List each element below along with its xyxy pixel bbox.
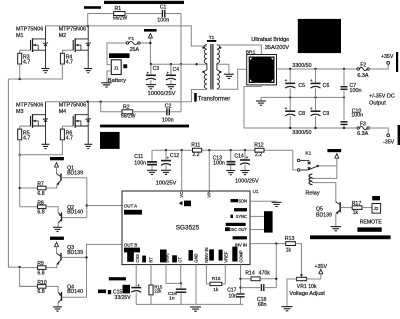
- resistor R16 1k: [210, 276, 222, 292]
- svg-text:4.7: 4.7: [66, 60, 73, 66]
- bar censored above transformer core: [207, 40, 216, 42]
- junction R9 tap: [18, 266, 20, 268]
- capacitor C3 10000/25V: [146, 64, 159, 84]
- svg-text:R17: R17: [352, 201, 362, 207]
- pin SDN: [231, 199, 248, 204]
- censored block right of J1: [123, 64, 127, 68]
- connector J1: [111, 60, 121, 75]
- transistor Q3 BD139 with resistor R9: [20, 237, 87, 277]
- svg-text:BD140: BD140: [67, 289, 83, 295]
- junction M2 drain / R1C1 snubber: [87, 25, 89, 27]
- capacitor C2 100n: [162, 104, 174, 124]
- svg-text:MTP75N06: MTP75N06: [59, 102, 86, 108]
- pin CT: [172, 255, 182, 262]
- junction snubber B at drain rail: [100, 101, 102, 103]
- wire driver bus A: [86, 178, 88, 218]
- wire +12V rail to transformer center tap: [150, 63, 207, 65]
- pin VC top: [179, 192, 184, 198]
- svg-text:56/2W: 56/2W: [113, 16, 128, 22]
- svg-text:C9: C9: [323, 111, 330, 117]
- svg-text:10000/25V: 10000/25V: [148, 91, 176, 97]
- svg-text:J1: J1: [114, 65, 119, 70]
- label +/-35V DC Output: [369, 94, 395, 107]
- svg-text:25A: 25A: [130, 47, 140, 53]
- svg-text:K1: K1: [305, 151, 311, 157]
- relay coil K1: [309, 174, 314, 184]
- svg-text:33/25V: 33/25V: [115, 295, 132, 301]
- ground C14: [241, 171, 250, 175]
- wire M4 drain stub: [87, 101, 89, 103]
- phase dot primary top: [202, 47, 204, 49]
- wire R2 to C2: [133, 111, 167, 113]
- wire rail to relay contact: [293, 150, 297, 170]
- svg-text:R1: R1: [115, 6, 122, 12]
- svg-text:6.8: 6.8: [37, 191, 44, 197]
- censored block left of IC: [100, 132, 120, 149]
- svg-text:R16: R16: [212, 276, 221, 281]
- censored marks left of C15: [98, 290, 111, 295]
- censored bar top short: [84, 6, 101, 9]
- wire drain rail M3/M4 to transformer primary bottom: [46, 90, 207, 102]
- svg-text:Transformer: Transformer: [198, 96, 230, 102]
- wire R9/R10 jog: [20, 267, 38, 286]
- svg-text:Voltage Adjust: Voltage Adjust: [289, 291, 325, 297]
- svg-text:R10: R10: [37, 280, 47, 286]
- wire secondary top to bridge: [217, 45, 262, 55]
- relay contact K1: [297, 159, 319, 171]
- transformer primary winding: [204, 45, 207, 89]
- ground VR1: [282, 307, 293, 311]
- svg-text:C11: C11: [134, 154, 143, 160]
- svg-text:1k: 1k: [286, 247, 292, 253]
- wire bottom rail: [136, 303, 243, 305]
- svg-text:100n: 100n: [157, 18, 169, 24]
- censored bar above J1: [109, 53, 130, 58]
- svg-text:MTP75N06: MTP75N06: [16, 27, 43, 33]
- pin OUT A: [124, 204, 137, 209]
- node +12V relay arrow (label censored): [327, 149, 341, 166]
- junction C9 bottom: [314, 127, 316, 129]
- svg-text:+: +: [146, 71, 149, 76]
- resistor R13 1k: [285, 236, 296, 253]
- ground C4: [166, 85, 176, 89]
- ground mid rail: [256, 97, 266, 105]
- wire RT pin down: [150, 265, 152, 285]
- wire drain rail M1/M2 to transformer primary top: [46, 26, 207, 46]
- wire F1 to +12V node: [140, 42, 150, 44]
- wire OSC OUT stub: [250, 229, 264, 231]
- wire J1 pin2 to ground: [107, 71, 111, 82]
- svg-text:BD139: BD139: [316, 213, 332, 219]
- junction feedback node: [275, 242, 277, 244]
- svg-text:1000/25V: 1000/25V: [235, 179, 259, 185]
- capacitor C12 100/25V: [161, 150, 179, 170]
- junction C5 top: [289, 68, 291, 70]
- svg-text:3300/50: 3300/50: [292, 63, 311, 69]
- svg-text:VC: VC: [179, 192, 184, 198]
- svg-text:CT: CT: [178, 257, 183, 263]
- node +35V arrow: [315, 264, 328, 274]
- label Relay: [305, 190, 320, 196]
- label 35A/200V: [265, 45, 289, 51]
- capacitor C16 1n: [168, 283, 186, 304]
- svg-text:4.7: 4.7: [23, 135, 30, 141]
- resistor R2: [121, 105, 136, 120]
- junction center-tap column at +12V rail: [180, 63, 182, 65]
- ground C13: [226, 171, 235, 175]
- resistor R17 1k: [352, 201, 362, 216]
- ground secondary center tap: [224, 74, 234, 78]
- svg-text:BD139: BD139: [67, 250, 83, 256]
- wire C1 to center-tap column: [165, 13, 181, 15]
- label 100/25V: [156, 180, 177, 186]
- fuse F3 6.3A: [357, 121, 369, 136]
- wire +35V rail: [277, 68, 358, 70]
- svg-text:F1: F1: [128, 36, 134, 42]
- svg-text:NINV IN: NINV IN: [204, 248, 209, 263]
- svg-text:2.2: 2.2: [255, 152, 262, 158]
- censored mark right of C15 label: [123, 285, 131, 294]
- svg-text:100n: 100n: [213, 161, 225, 167]
- censored long bar bottom right: [310, 235, 391, 239]
- censored block above J2: [372, 196, 380, 200]
- junction C13 rail: [230, 149, 232, 151]
- label 10000/25V: [148, 91, 176, 97]
- svg-text:1n: 1n: [169, 295, 175, 301]
- svg-text:CSS: CSS: [135, 254, 140, 263]
- svg-text:C12: C12: [170, 153, 180, 159]
- svg-text:+: +: [310, 78, 313, 83]
- svg-text:BR1: BR1: [246, 50, 256, 56]
- wire CT pin down: [180, 265, 182, 284]
- capacitor C13 100n: [213, 150, 236, 170]
- capacitor C5 3300/50: [285, 69, 306, 97]
- label K1: [305, 151, 311, 157]
- wire DISC pin down: [166, 265, 181, 284]
- transistor M1 (MTP75N06) with gate resistor R3: [16, 26, 50, 73]
- wire R17 to J2: [362, 207, 372, 209]
- svg-text:M2: M2: [59, 33, 66, 39]
- wire snubber A left leg: [88, 14, 114, 26]
- svg-text:6.3A: 6.3A: [357, 73, 368, 79]
- pin GND: [189, 250, 199, 263]
- svg-text:C14: C14: [234, 154, 244, 160]
- label 1000/25V: [235, 179, 259, 185]
- svg-text:Relay: Relay: [305, 190, 320, 196]
- svg-text:100n: 100n: [134, 161, 146, 167]
- capacitor C17 10n: [227, 288, 244, 305]
- resistor R1: [113, 6, 128, 22]
- svg-text:GND: GND: [194, 253, 199, 262]
- wire secondary center tap to ground: [217, 64, 229, 74]
- svg-text:M3: M3: [16, 109, 24, 115]
- svg-text:C6: C6: [323, 83, 330, 89]
- wire GND pin down: [195, 265, 197, 305]
- svg-text:R11: R11: [191, 143, 200, 149]
- svg-text:2.2: 2.2: [193, 152, 200, 158]
- censored bar above C15: [109, 277, 126, 280]
- junction C3: [150, 63, 152, 65]
- svg-text:68n: 68n: [258, 302, 267, 308]
- wire R15 to rail: [150, 295, 152, 305]
- label Transformer: [194, 93, 230, 102]
- svg-text:J2: J2: [374, 206, 379, 211]
- svg-text:+35V: +35V: [381, 54, 394, 60]
- capacitor C14 1000/25V: [234, 150, 250, 170]
- capacitor C15 33/25V: [113, 283, 141, 304]
- svg-text:6.8: 6.8: [37, 210, 44, 216]
- capacitor C7 100n: [341, 69, 362, 97]
- svg-text:C3: C3: [153, 66, 160, 72]
- label 3300/50 top: [292, 63, 311, 69]
- label REMOTE: [360, 220, 382, 226]
- junction F1 at +12V column: [149, 42, 151, 44]
- svg-text:R13: R13: [285, 236, 295, 242]
- junction OUT B bus Q3: [85, 256, 87, 258]
- junction R5 bottom row: [19, 154, 21, 156]
- label Battery: [108, 78, 126, 84]
- svg-text:OSC OUT: OSC OUT: [228, 227, 247, 232]
- junction R3 bottom: [19, 78, 21, 80]
- wire COMP pin down: [240, 265, 242, 294]
- svg-text:+: +: [310, 106, 313, 111]
- wire gate drive row M1/M2: [8, 64, 62, 79]
- wire VC tap down: [181, 150, 183, 191]
- wire center-tap column x181: [180, 14, 182, 112]
- censored bar under REMOTE: [357, 227, 381, 231]
- svg-text:VREF: VREF: [223, 251, 228, 262]
- censored bar top long: [104, 1, 184, 4]
- junction C12 rail: [165, 149, 167, 151]
- junction COMP R14: [239, 278, 241, 280]
- svg-text:Battery: Battery: [108, 78, 126, 84]
- transistor Q5 BD139: [316, 202, 340, 226]
- capacitor C11 100n: [134, 150, 157, 170]
- wire mid rail: [261, 96, 344, 98]
- svg-text:F3: F3: [360, 121, 366, 127]
- capacitor C8 3300/50: [285, 97, 306, 128]
- wire contact common to +12V node: [318, 165, 337, 167]
- wire R5 column down to R7/R8: [19, 140, 21, 207]
- junction C4: [170, 63, 172, 65]
- pin OSC OUT: [225, 223, 247, 232]
- svg-text:R12: R12: [254, 143, 264, 149]
- svg-text:SDN: SDN: [238, 199, 247, 204]
- pin VIN top: [207, 191, 212, 198]
- junction C8 bottom: [289, 127, 291, 129]
- svg-text:C2: C2: [165, 104, 172, 110]
- svg-text:M4: M4: [59, 109, 66, 115]
- transformer T1 label: [209, 35, 215, 41]
- junction CT DISC C16: [180, 282, 182, 284]
- svg-text:C5: C5: [298, 83, 305, 89]
- pin DISC: [160, 250, 169, 263]
- label BR1: [246, 50, 256, 56]
- ground Q5 emitter: [331, 227, 342, 231]
- transformer core: [211, 44, 213, 90]
- phase dot secondary bottom: [219, 71, 221, 73]
- svg-text:4.7: 4.7: [23, 60, 30, 66]
- pin SYNC: [231, 208, 248, 219]
- capacitor C10 100n: [341, 97, 364, 128]
- svg-text:SG3525: SG3525: [176, 224, 200, 231]
- svg-text:22k: 22k: [154, 289, 162, 294]
- transformer secondary winding: [217, 45, 220, 89]
- wire feedback node down: [275, 244, 277, 288]
- svg-text:35A/200V: 35A/200V: [265, 45, 289, 51]
- svg-text:+35V: +35V: [315, 264, 328, 270]
- fuse F2 6.3A: [357, 62, 369, 78]
- op-amp U1 SG3525 body: [122, 189, 259, 264]
- ground battery negative: [101, 83, 112, 87]
- pin INV IN: [233, 236, 247, 247]
- pin OUT B: [124, 243, 137, 248]
- censored bar right edge top: [396, 52, 398, 72]
- svg-text:R8: R8: [37, 200, 44, 206]
- wire VCC rail: [152, 149, 293, 151]
- pin NINV IN: [204, 248, 214, 263]
- transistor M4 (MTP75N06) with gate resistor R6: [59, 102, 92, 149]
- svg-text:REMOTE: REMOTE: [360, 220, 382, 226]
- censored pin number OUT A: [124, 210, 142, 215]
- junction C10 bottom: [343, 127, 345, 129]
- wire BR1 negative out: [244, 85, 357, 128]
- wire VIN tap down: [208, 150, 210, 191]
- potentiometer VR1 10k: [289, 274, 325, 296]
- svg-text:+: +: [246, 155, 249, 160]
- wire VR1 right to +35V: [307, 274, 321, 279]
- capacitor C4 10000/25V: [166, 64, 179, 84]
- pin RT: [142, 256, 153, 263]
- junction VIN tap: [208, 149, 210, 151]
- terminal -35V: [383, 134, 395, 146]
- wire R13 to VR1 wiper: [295, 244, 301, 275]
- junction center tap: [195, 63, 197, 65]
- junction R7 tap: [19, 187, 21, 189]
- svg-text:+: +: [285, 106, 288, 111]
- svg-text:BD139: BD139: [67, 170, 83, 176]
- svg-text:C1: C1: [160, 4, 167, 10]
- junction C7 top: [343, 68, 345, 70]
- censored pin number OUT B: [124, 248, 140, 253]
- phase dot secondary top: [219, 47, 221, 49]
- junction C14 rail: [244, 149, 246, 151]
- wire OUT A to IC: [87, 205, 122, 207]
- svg-text:100n: 100n: [350, 88, 362, 94]
- svg-text:56/2W: 56/2W: [121, 114, 136, 120]
- svg-text:+: +: [166, 71, 169, 76]
- wire SDN to ground: [250, 200, 277, 202]
- wire R1 to C1: [125, 13, 162, 15]
- svg-text:10n: 10n: [229, 294, 238, 300]
- svg-text:100/25V: 100/25V: [156, 180, 177, 186]
- svg-text:3300/50: 3300/50: [292, 130, 311, 136]
- censored thick line: [100, 125, 189, 128]
- censored block right of IC: [264, 211, 273, 232]
- junction C5 bottom: [289, 96, 291, 98]
- ground SDN: [272, 202, 282, 206]
- node +12V supply arrow (label censored): [144, 29, 157, 64]
- junction M4 drain: [87, 101, 89, 103]
- resistor R14 470k: [241, 271, 277, 281]
- svg-text:C8: C8: [298, 111, 305, 117]
- label Ultrafast Bridge: [251, 37, 289, 43]
- svg-text:100n: 100n: [162, 118, 174, 124]
- svg-text:Output: Output: [369, 100, 386, 106]
- junction OUT A: [86, 204, 88, 206]
- wire VR1 left to ground: [287, 279, 297, 306]
- wire SYNC stub: [250, 215, 264, 217]
- transistor Q1 BD139 with resistor R7: [20, 157, 87, 197]
- resistor R12 2.2: [254, 143, 264, 158]
- svg-text:VIN: VIN: [207, 191, 212, 198]
- svg-text:+/-35V DC: +/-35V DC: [369, 94, 395, 100]
- svg-text:100n: 100n: [351, 113, 363, 119]
- svg-text:6.8: 6.8: [37, 289, 44, 295]
- bridge rectifier BR1 (ultrafast bridge): [247, 55, 277, 85]
- junction C6 top: [314, 68, 316, 70]
- junction C7 bottom: [343, 96, 345, 98]
- ground C12: [161, 170, 171, 174]
- resistor R15 22k: [149, 285, 163, 295]
- connector J2: [372, 204, 381, 214]
- svg-text:R7: R7: [37, 182, 44, 188]
- svg-text:R2: R2: [123, 105, 130, 111]
- wire coil to Q5 collector: [313, 183, 335, 202]
- transistor Q4 BD140 with resistor R10: [20, 280, 87, 311]
- censored pin number VC: [179, 201, 191, 207]
- wire R3 bottom: [19, 64, 21, 79]
- svg-text:+: +: [137, 283, 140, 288]
- wire gate drive row M3/M4: [20, 140, 63, 155]
- svg-text:R9: R9: [37, 261, 44, 267]
- svg-text:U1: U1: [253, 189, 259, 194]
- wire VREF pin to R16: [222, 265, 226, 284]
- svg-text:10k: 10k: [308, 284, 317, 290]
- pin VREF: [219, 250, 229, 263]
- resistor R11 2.2: [191, 143, 201, 158]
- ground IC: [190, 307, 201, 311]
- svg-text:OUT A: OUT A: [124, 204, 137, 209]
- capacitor C9 3300/50: [310, 97, 329, 128]
- svg-text:COMP: COMP: [238, 250, 243, 263]
- svg-text:6.3A: 6.3A: [357, 131, 368, 137]
- svg-text:-35V: -35V: [383, 140, 395, 146]
- svg-text:VR1: VR1: [297, 284, 307, 290]
- svg-text:4.7: 4.7: [66, 135, 73, 141]
- junction VC tap: [181, 149, 183, 151]
- wire driver bus B: [87, 244, 123, 297]
- pin COMP: [232, 247, 243, 263]
- censored bar right edge bottom: [398, 125, 400, 145]
- svg-text:INV IN: INV IN: [235, 242, 247, 247]
- transistor M2 (MTP75N06) with gate resistor R4: [59, 26, 92, 73]
- ground C3: [146, 85, 156, 89]
- wire snubber B left leg: [101, 102, 122, 112]
- svg-text:OUT B: OUT B: [124, 243, 137, 248]
- svg-text:M1: M1: [16, 33, 24, 39]
- wire F3 to -35V terminal: [369, 128, 388, 134]
- svg-text:+: +: [167, 156, 170, 161]
- transistor M3 (MTP75N06) with gate resistor R5: [16, 102, 50, 149]
- svg-text:BD140: BD140: [67, 210, 83, 216]
- junction node B R14: [275, 278, 277, 280]
- svg-text:1k: 1k: [213, 287, 219, 292]
- svg-text:DISC: DISC: [164, 253, 169, 263]
- pin CSS: [127, 252, 140, 263]
- transistor Q2 BD140 with resistor R8: [20, 200, 87, 231]
- terminal +35V: [381, 54, 394, 64]
